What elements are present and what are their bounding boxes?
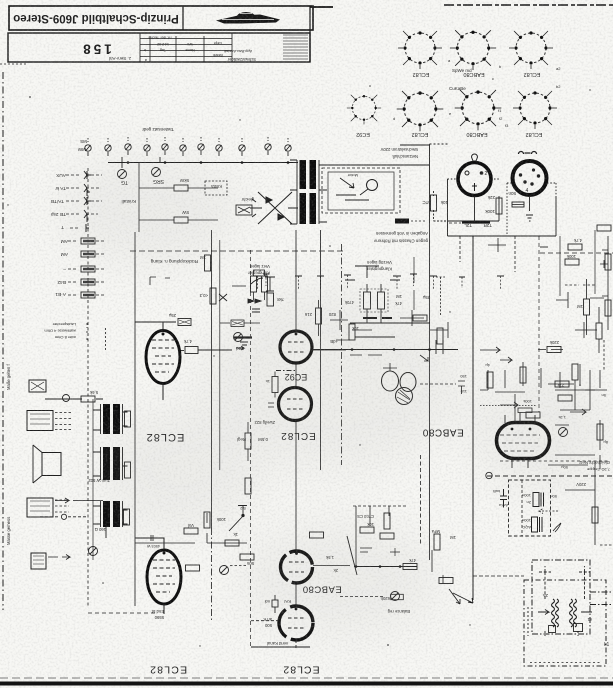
- svg-text:Maße gelten f: Maße gelten f: [6, 364, 11, 390]
- svg-text:Masse gemess: Masse gemess: [6, 517, 11, 545]
